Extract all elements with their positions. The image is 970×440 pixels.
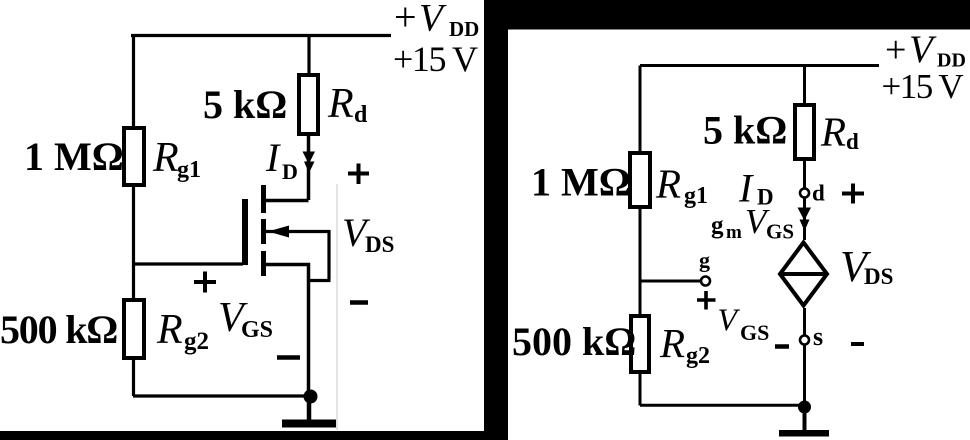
svg-text:1 MΩ: 1 MΩ: [531, 160, 631, 205]
svg-text:d: d: [354, 102, 368, 128]
svg-text:500 kΩ: 500 kΩ: [512, 319, 636, 364]
wire: Rd to MOSFET drain (left): [307, 134, 311, 200]
svg-text:g: g: [699, 248, 710, 273]
svg-text:I: I: [265, 135, 281, 180]
wire: ground rail (left circuit): [133, 394, 310, 397]
wire: Rd to node d (right): [803, 159, 806, 188]
arrowhead on body tie (points into channel): [268, 226, 289, 238]
wire: rail drop to Rd (right): [803, 66, 806, 106]
wire: node s to ground rail (right): [803, 345, 806, 408]
svg-text:1 MΩ: 1 MΩ: [24, 134, 124, 179]
resistor Rg1 (left): [124, 128, 144, 185]
wire: left divider rail (right circuit): [639, 66, 642, 406]
junction dot (left ground node): [304, 390, 318, 404]
wire: node d to current source (right): [803, 198, 806, 241]
svg-text:500 kΩ: 500 kΩ: [0, 307, 117, 352]
svg-text:D: D: [282, 159, 298, 184]
svg-text:R: R: [156, 307, 183, 353]
MOSFET Q1 channel segment (body): [261, 219, 266, 244]
svg-text:GS: GS: [241, 317, 273, 343]
ground stub (left): [307, 396, 312, 420]
svg-text:5 kΩ: 5 kΩ: [203, 82, 287, 127]
resistor Rd (right): [795, 105, 814, 159]
svg-text:V: V: [909, 28, 937, 71]
svg-text:+15 V: +15 V: [882, 67, 964, 106]
svg-text:V: V: [419, 0, 447, 40]
svg-text:+15 V: +15 V: [393, 39, 478, 79]
wire: +VDD rail (right circuit): [640, 64, 879, 67]
plus sign (VDS +, left): [348, 164, 369, 185]
svg-text:+: +: [394, 0, 417, 40]
wire: drain tap of Q1: [264, 199, 309, 203]
svg-text:+: +: [885, 29, 906, 71]
plus sign (VGS +, right): [697, 291, 716, 310]
plus sign (VDS +, right): [842, 184, 864, 204]
MOSFET Q1 gate bar: [242, 199, 248, 265]
svg-text:R: R: [655, 161, 681, 207]
junction dot (right ground node): [798, 401, 811, 414]
current source midline: [779, 272, 828, 276]
resistor Rd (left): [299, 75, 318, 134]
svg-text:g2: g2: [184, 328, 209, 355]
wire: ground rail (right circuit): [640, 404, 804, 407]
wire: left gate-divider rail (left circuit): [132, 36, 135, 397]
svg-text:s: s: [813, 322, 823, 351]
svg-text:DD: DD: [449, 17, 479, 41]
svg-text:DS: DS: [365, 232, 394, 257]
current direction arrow gmVGS (double arrowhead, right): [798, 208, 812, 232]
svg-text:g2: g2: [686, 343, 710, 369]
node s (open terminal): [800, 336, 809, 345]
svg-text:DS: DS: [864, 264, 893, 289]
minus sign (VGS -, right): [775, 344, 789, 349]
ground symbol (left): [282, 420, 336, 428]
wire: gate of Q1 to divider: [133, 262, 243, 265]
minus sign (VDS -, left): [350, 300, 368, 305]
node g (open terminal): [701, 277, 710, 286]
svg-text:d: d: [846, 129, 859, 154]
svg-text:R: R: [820, 109, 846, 155]
wire: node g tap (right): [640, 280, 701, 283]
svg-text:g1: g1: [684, 183, 708, 209]
resistor Rg2 (left): [124, 300, 144, 358]
svg-text:g: g: [711, 212, 724, 239]
wire: +VDD rail (left circuit): [131, 34, 391, 37]
wire: rail drop to Rd (left): [307, 36, 310, 76]
dependent current source U1 (diamond): [780, 243, 827, 306]
svg-text:m: m: [726, 222, 742, 243]
node d (open terminal): [800, 189, 809, 198]
svg-text:g1: g1: [177, 157, 201, 183]
wire: current source to node s (right): [803, 308, 806, 336]
svg-text:5 kΩ: 5 kΩ: [703, 108, 787, 153]
resistor Rg2 (right): [631, 316, 649, 372]
ground stub (right): [803, 407, 807, 431]
svg-text:R: R: [327, 81, 354, 127]
MOSFET Q1 channel segment (drain): [261, 185, 266, 213]
svg-text:GS: GS: [740, 320, 769, 345]
wire: source tap of Q1 down to ground rail: [264, 265, 309, 397]
resistor Rg1 (right): [630, 153, 650, 207]
ground symbol (right): [779, 430, 829, 437]
minus sign (VDS -, right): [851, 342, 864, 346]
MOSFET Q1 channel segment (source): [261, 251, 266, 276]
svg-text:R: R: [659, 320, 685, 366]
wire: body tie of Q1: [266, 232, 331, 281]
svg-text:d: d: [812, 181, 825, 206]
svg-text:GS: GS: [766, 220, 794, 244]
minus sign (VGS -, left): [277, 355, 300, 360]
current arrow ID (left, double arrowhead): [303, 152, 316, 174]
svg-text:R: R: [152, 135, 179, 181]
plus sign (VGS +, left): [194, 272, 216, 293]
